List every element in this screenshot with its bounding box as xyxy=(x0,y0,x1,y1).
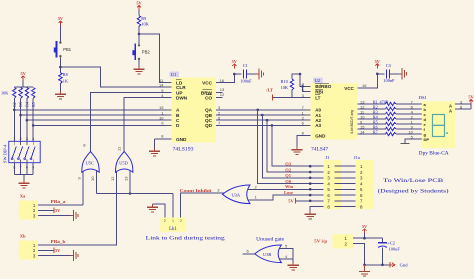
svg-text:Q1: Q1 xyxy=(285,173,292,178)
svg-text:10K: 10K xyxy=(141,22,149,27)
wire U2 VCC pin 16 xyxy=(357,74,377,88)
wire U3A pin 2 / Win to J1 pin 5 xyxy=(248,184,324,189)
or-gate U3B xyxy=(255,245,282,263)
wire U5D input pin 13 to inhibit net / node xyxy=(124,170,132,195)
connector J1 xyxy=(324,160,341,209)
svg-text:Xb: Xb xyxy=(20,233,26,238)
U1 pins 13 BRW / 12 CO (n.c.) xyxy=(216,87,225,98)
ground (Xb pin 3, sideways) xyxy=(71,250,79,261)
wire U1 Q2 row to U2 xyxy=(216,110,311,115)
svg-text:Q0: Q0 xyxy=(285,179,292,184)
label J1a xyxy=(354,155,360,160)
wire node to C1 xyxy=(234,73,241,75)
svg-text:1: 1 xyxy=(172,219,174,223)
wire C3 to ground xyxy=(390,73,399,75)
power port 5V (U2) / node xyxy=(375,59,381,75)
svg-text:R8: R8 xyxy=(63,72,68,77)
capacitor C3 100nF xyxy=(383,63,395,83)
ground (PB2) xyxy=(133,66,144,74)
wire bank column 1 to DIP / node xyxy=(13,99,16,142)
resistor R3 xyxy=(357,109,421,115)
svg-text:470R: 470R xyxy=(380,99,389,104)
wire U1 GND pin 8 xyxy=(155,133,172,148)
label SW DIP-4 xyxy=(2,144,7,163)
capacitor C2 100uF xyxy=(378,238,400,251)
or-gate U5C xyxy=(82,152,99,173)
svg-text:10: 10 xyxy=(90,176,95,181)
svg-text:J1a: J1a xyxy=(354,155,360,160)
wire U5C output pin 8 to U1 UP xyxy=(83,93,171,152)
wire Q3 from counter bus to J1 xyxy=(271,124,324,166)
wire U3B output pin 6 xyxy=(243,249,255,254)
svg-text:5V: 5V xyxy=(136,1,142,6)
wire Q1 from counter bus to J1 xyxy=(261,114,324,178)
resistor R6 xyxy=(357,124,421,130)
DS1 pin letters xyxy=(424,102,453,142)
wire U5C input pin 10 to inhibit net xyxy=(90,170,97,194)
svg-text:PBa_b: PBa_b xyxy=(51,239,67,244)
svg-text:GND: GND xyxy=(176,137,187,142)
wire U3A pin 1 / Lose to J1 pin 6 xyxy=(248,190,324,200)
U2 VCC pin name xyxy=(344,86,354,91)
svg-text:14: 14 xyxy=(360,129,365,134)
svg-text:12: 12 xyxy=(110,176,115,181)
label Dpy Blue-CA xyxy=(419,151,449,156)
wire Lk1 pin 1 to ground xyxy=(153,204,165,218)
connector Xb xyxy=(19,241,38,260)
wires J1 to J1a xyxy=(334,166,358,206)
wire 5V rail to resistor bank xyxy=(14,81,33,88)
wire U1 VCC pin 16 xyxy=(216,74,234,83)
wire pin 2 down xyxy=(353,244,365,265)
labels Q3 Q2 Q1 Q0 xyxy=(285,162,292,184)
svg-text:1: 1 xyxy=(13,137,15,141)
wire bus D to U1 xyxy=(33,124,171,126)
svg-text:PB2: PB2 xyxy=(142,50,151,55)
wire node to C3 xyxy=(377,73,384,75)
svg-text:U2: U2 xyxy=(315,78,321,83)
svg-text:Gnd: Gnd xyxy=(400,263,409,268)
wire bank column 4 to DIP / node xyxy=(32,99,35,142)
svg-text:2: 2 xyxy=(180,219,182,223)
svg-text:BI/RBO: BI/RBO xyxy=(315,84,332,89)
ground (Lk1) xyxy=(147,204,158,212)
resistor R2 (bank) xyxy=(13,88,16,99)
label U1 xyxy=(170,72,180,78)
svg-text:R2: R2 xyxy=(13,102,17,107)
label 5V i/p xyxy=(314,239,328,244)
svg-text:R5: R5 xyxy=(32,102,36,107)
svg-text:VCC: VCC xyxy=(344,86,354,91)
pushbutton PB1 xyxy=(54,41,72,58)
svg-text:2: 2 xyxy=(164,219,166,223)
svg-text:16: 16 xyxy=(220,78,225,83)
capacitor C1 100nF xyxy=(240,63,252,83)
svg-text:SW DIP-4: SW DIP-4 xyxy=(2,144,7,163)
svg-text:Count Inhibit: Count Inhibit xyxy=(180,188,213,193)
wire Lk1 pin 3 to U3A output (Count Inhibit) xyxy=(180,193,224,217)
svg-text:5V: 5V xyxy=(58,16,64,21)
IC U2 74LS47 body xyxy=(311,83,358,139)
label 74LS47 xyxy=(311,147,329,152)
wire DS1 anode pins 3,8 xyxy=(455,99,471,109)
wire Xa pin 3 to ground xyxy=(38,215,71,217)
svg-text:R3: R3 xyxy=(19,102,23,107)
wire PB2 to ground xyxy=(138,60,140,66)
link Lk1 xyxy=(160,218,186,233)
wire C1 to ground xyxy=(247,73,256,75)
wire U2 GND pin 8 xyxy=(297,130,311,146)
power port 5V (DS1) xyxy=(468,95,474,104)
wire 5V to PB1 xyxy=(59,26,61,42)
svg-text:5V: 5V xyxy=(288,198,294,203)
resistor R9 10K xyxy=(137,16,149,27)
wire inhibit net to Lk1 pin 2 xyxy=(97,194,174,218)
svg-text:R10: R10 xyxy=(281,79,288,84)
U1 left pin names xyxy=(176,80,188,142)
wire ground rail xyxy=(363,247,390,266)
wire Q2 from counter bus to J1 xyxy=(266,119,324,172)
resistor R3 (bank) xyxy=(19,88,22,99)
resistor R4 xyxy=(357,114,421,120)
label Unused gate xyxy=(256,237,285,242)
wire U5D input pin 12 to Xb xyxy=(110,170,117,246)
resistor R1 470R xyxy=(357,99,421,105)
svg-text:13: 13 xyxy=(124,176,129,181)
power port Gnd xyxy=(390,262,408,268)
connector 5V i/p xyxy=(333,234,354,248)
svg-text:10K: 10K xyxy=(1,91,9,96)
label Link to Gnd during testing xyxy=(146,237,226,242)
label Xa xyxy=(20,193,26,198)
svg-text:QD: QD xyxy=(205,123,213,128)
svg-text:RBI: RBI xyxy=(315,90,323,95)
ground (J1) xyxy=(305,211,316,219)
svg-text:14: 14 xyxy=(159,82,164,87)
svg-text:Lk1: Lk1 xyxy=(169,227,177,232)
svg-text:U5C: U5C xyxy=(86,161,94,166)
label 10K (bank) xyxy=(1,91,9,96)
resistor R10 10K xyxy=(281,79,294,90)
resistor R5 xyxy=(357,119,421,125)
svg-text:100nF: 100nF xyxy=(383,78,395,83)
wire U1 Q3 row to U2 xyxy=(216,105,311,110)
svg-text:4: 4 xyxy=(32,137,34,141)
svg-text:A: A xyxy=(449,109,452,114)
svg-text:PB1: PB1 xyxy=(63,47,72,52)
svg-text:5V: 5V xyxy=(468,95,474,100)
resistor R5 (bank) xyxy=(32,88,35,99)
resistor R4 (bank) xyxy=(25,88,28,99)
svg-text:5V i/p: 5V i/p xyxy=(314,239,328,244)
svg-text:U1: U1 xyxy=(171,72,177,77)
wire VCC to U2 pins 4,5 xyxy=(300,74,311,92)
label R5 xyxy=(32,102,36,107)
wire Xb pin 3 to ground xyxy=(38,255,71,257)
svg-text:5V: 5V xyxy=(21,71,27,76)
power port 5V (Xb pin 2) xyxy=(38,248,61,254)
wire R10 top to VCC net / node xyxy=(292,73,301,79)
IC U1 74LS193 body xyxy=(172,78,216,143)
wire U5D output pin 11 to U1 DWN xyxy=(116,98,171,152)
label Count Inhibit / pin 3 xyxy=(180,188,221,193)
svg-text:5V: 5V xyxy=(375,59,381,64)
resistor R2 xyxy=(357,104,421,110)
wire pin 1 to C2 / node xyxy=(353,237,383,240)
connector Xa xyxy=(19,201,38,220)
svg-text:/LT: /LT xyxy=(265,88,273,93)
label R2 xyxy=(13,102,17,107)
wire R9 to PB2 / node xyxy=(138,27,141,45)
svg-text:Unused gate: Unused gate xyxy=(256,237,285,242)
wire Xa pin 1 (PBa_a) xyxy=(38,199,83,205)
svg-text:12: 12 xyxy=(220,92,225,97)
connector J1a xyxy=(356,160,373,209)
svg-text:R7: R7 xyxy=(373,130,378,135)
wire Xb pin 1 (PBa_b) xyxy=(38,239,117,245)
svg-text:3: 3 xyxy=(26,137,28,141)
wire PB1 to R8 / node xyxy=(59,57,62,72)
U2 rotated type text xyxy=(350,110,354,134)
power port 5V (U1) / node xyxy=(232,59,238,75)
or-gate U5D xyxy=(116,152,133,173)
svg-text:Q2: Q2 xyxy=(285,167,292,172)
label To Win/Lose PCB xyxy=(378,179,449,195)
wire PB2 node to U1 LD xyxy=(139,34,172,83)
svg-text:DP: DP xyxy=(424,137,430,142)
svg-text:10K: 10K xyxy=(281,85,289,90)
ground (C1, sideways) xyxy=(256,68,264,79)
svg-text:74LS47: 74LS47 xyxy=(311,147,329,152)
svg-text:U3A: U3A xyxy=(232,192,241,197)
ground (U2) xyxy=(292,147,303,155)
U2 left pin names xyxy=(315,84,332,139)
power port 5V (PB2) xyxy=(136,1,142,10)
svg-text:Q3: Q3 xyxy=(285,162,292,167)
label J1 xyxy=(326,155,331,160)
wire DIP switch to ground rail xyxy=(14,163,33,180)
label 74LS193 xyxy=(173,147,195,152)
wire bank column 2 to DIP / node xyxy=(19,99,22,142)
svg-text:5V: 5V xyxy=(362,224,368,229)
U2 left pin numbers xyxy=(302,82,311,126)
svg-text:GND: GND xyxy=(315,134,326,139)
wire U3B inputs 5,4 tied xyxy=(278,244,294,260)
svg-text:U3B: U3B xyxy=(263,252,271,257)
power port 5V to J1 pin 7 xyxy=(288,198,323,204)
power port 5V (resistor bank) xyxy=(21,71,27,80)
svg-text:R9: R9 xyxy=(141,16,146,21)
svg-text:Link to Gnd during testing: Link to Gnd during testing xyxy=(146,237,226,242)
svg-text:LT: LT xyxy=(315,95,320,100)
label R3 xyxy=(19,102,23,107)
ground (Xa pin 3, sideways) xyxy=(71,210,79,221)
7-segment digit (DS1) xyxy=(433,115,448,137)
U1 left pin numbers xyxy=(159,78,172,126)
wire U5C input pin 9 to Xa xyxy=(77,170,84,205)
svg-text:CLR: CLR xyxy=(176,85,186,90)
junction dots at J1 rows xyxy=(309,165,312,202)
svg-text:+C2: +C2 xyxy=(387,240,395,245)
wire bus A to U1 xyxy=(14,109,171,111)
wire U1 Q6 row to U2 xyxy=(216,116,311,121)
wire 5V port stub xyxy=(364,233,366,238)
svg-text:1K: 1K xyxy=(63,78,69,83)
wire bus B to U1 xyxy=(21,114,172,116)
wire R10 bottom to LT / /LT port xyxy=(273,90,311,98)
svg-text:74LS193: 74LS193 xyxy=(173,147,195,152)
power port /LT xyxy=(265,88,273,101)
power port 5V (Xa pin 2) xyxy=(38,208,61,214)
svg-text:2: 2 xyxy=(20,137,22,141)
svg-text:16: 16 xyxy=(362,83,367,88)
svg-text:Lose: Lose xyxy=(284,190,293,195)
label U2 xyxy=(313,78,323,84)
svg-text:4-bit BCD/7-seg: 4-bit BCD/7-seg xyxy=(350,110,354,134)
svg-text:100nF: 100nF xyxy=(240,78,252,83)
svg-text:5V: 5V xyxy=(232,59,238,64)
DIP switch S1 SW DIP-4 xyxy=(9,137,40,170)
svg-text:R4: R4 xyxy=(26,102,30,107)
ground (C3, sideways) xyxy=(399,68,407,79)
wire bus C to U1 xyxy=(27,119,172,121)
label R4 xyxy=(26,102,30,107)
resistor R7 xyxy=(357,129,421,135)
wire U1 Q7 row to U2 xyxy=(216,121,311,126)
or-gate U3A xyxy=(223,185,251,204)
svg-text:Dpy Blue-CA: Dpy Blue-CA xyxy=(419,151,449,156)
svg-text:CO: CO xyxy=(205,95,212,100)
display DS1 body xyxy=(422,101,455,148)
wire PB1 node to U1 CLR xyxy=(60,67,171,87)
ground (power input) xyxy=(359,265,370,276)
label Xb xyxy=(20,233,26,238)
svg-text:A3: A3 xyxy=(315,123,321,128)
svg-text:Xa: Xa xyxy=(20,193,26,198)
ground (DIP switch) xyxy=(18,180,29,188)
svg-text:DWN: DWN xyxy=(176,95,188,100)
ground (U3B inputs) xyxy=(288,259,299,270)
power port 5V (PB1) xyxy=(58,16,64,25)
wire Q0 from counter bus to J1 xyxy=(256,109,323,184)
wire DP pin 5 stub xyxy=(401,134,422,143)
label DS1 xyxy=(419,95,428,100)
svg-text:Win: Win xyxy=(285,184,294,189)
svg-text:J1: J1 xyxy=(326,155,331,160)
U1 right pin names xyxy=(201,80,213,128)
svg-text:DS1: DS1 xyxy=(419,95,428,100)
wire J1 pin 8 to ground xyxy=(310,207,323,211)
svg-text:5V: 5V xyxy=(55,248,61,253)
svg-text:C3: C3 xyxy=(386,63,392,68)
power port 5V (input) xyxy=(362,224,368,233)
wire 5V to R9 xyxy=(138,10,140,16)
svg-text:100uF: 100uF xyxy=(389,246,401,251)
ground (R8) xyxy=(55,91,66,99)
pushbutton PB2 xyxy=(132,44,150,61)
ground (U1) xyxy=(149,148,160,156)
svg-text:C1: C1 xyxy=(243,63,248,68)
svg-text:U5D: U5D xyxy=(119,161,128,166)
svg-text:PBa_a: PBa_a xyxy=(51,199,67,204)
wire bank column 3 to DIP / node xyxy=(26,99,29,142)
wire R8 to ground xyxy=(59,84,61,92)
svg-text:5V: 5V xyxy=(55,208,61,213)
svg-text:VCC: VCC xyxy=(202,80,213,85)
resistor R8 1K xyxy=(59,72,69,84)
svg-text:To Win/Lose PCB: To Win/Lose PCB xyxy=(383,179,444,184)
svg-text:(Designed by Students): (Designed by Students) xyxy=(378,190,449,195)
